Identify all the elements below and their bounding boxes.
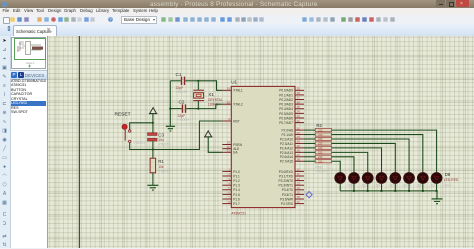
junction bus D8 [435, 190, 437, 192]
svg-text:220: 220 [318, 142, 323, 146]
svg-text:P1.3: P1.3 [233, 184, 240, 188]
svg-text:P2.1/A9: P2.1/A9 [282, 133, 294, 137]
svg-text:220: 220 [318, 146, 323, 150]
pin 37 P0.2/AD2 [279, 96, 304, 102]
wire R2.2 to LED D7 [332, 135, 423, 173]
svg-text:P0.6/AD6: P0.6/AD6 [279, 116, 293, 120]
pin 29 PSEN [222, 141, 242, 147]
node RESET label [115, 112, 131, 118]
svg-text:P0.5/AD5: P0.5/AD5 [279, 112, 293, 116]
pin 13 P3.3/INT1 [279, 181, 304, 187]
pin 21 P2.0/A8 [282, 126, 304, 132]
junction bus D3 [367, 190, 369, 192]
wire P2.1 to R2 [304, 134, 315, 136]
node marker (blue diamond) [306, 191, 312, 197]
pin 25 P2.4/A12 [280, 144, 304, 150]
svg-text:R1: R1 [158, 159, 164, 164]
svg-text:P2.0/A8: P2.0/A8 [282, 129, 294, 133]
svg-text:P0.1/AD1: P0.1/AD1 [279, 93, 293, 97]
pin 22 P2.1/A9 [282, 131, 304, 137]
wire P2.0 to R2 [304, 129, 315, 131]
resistor R2.2 [315, 133, 331, 137]
wire P2.4 to R2 [304, 147, 315, 149]
resistor R1 [150, 150, 170, 186]
resistor R2.6 [315, 151, 331, 155]
wire R2.8 to LED D1 [332, 161, 341, 172]
pin 27 P2.6/A14 [280, 153, 304, 159]
pin 5 P1.4 [222, 186, 240, 192]
svg-text:10k: 10k [158, 165, 164, 169]
pin 17 P3.7/RD [281, 200, 304, 206]
pin 36 P0.3/AD3 [279, 100, 304, 106]
resistor R2.1 [315, 128, 331, 132]
svg-text:P0.4/AD4: P0.4/AD4 [279, 107, 293, 111]
pin 39 P0.0/AD0 [279, 87, 304, 93]
pin 24 P2.3/A11 [280, 140, 304, 146]
pin 3 P1.2 [222, 177, 240, 183]
wire button bottom to RST node [130, 143, 153, 150]
svg-text:<TEXT>: <TEXT> [159, 170, 171, 174]
pin 28 P2.7/A15 [280, 157, 304, 163]
junction bus D2 [353, 190, 355, 192]
svg-text:<TEXT>: <TEXT> [374, 183, 384, 187]
junction X1 top [197, 80, 199, 82]
menu bar [0, 8, 474, 15]
junction X1 bottom [197, 108, 199, 110]
svg-text:220: 220 [318, 133, 323, 137]
wire XTAL2 net [198, 104, 222, 108]
svg-text:<TEXT>: <TEXT> [401, 183, 411, 187]
svg-text:P3.0/RXD: P3.0/RXD [279, 170, 294, 174]
ground under R1 [147, 185, 158, 190]
svg-text:P3.5/T1: P3.5/T1 [282, 193, 293, 197]
svg-text:P0.2/AD2: P0.2/AD2 [279, 98, 293, 102]
svg-text:D8: D8 [445, 172, 451, 177]
pin 11 P3.1/TXD [279, 172, 304, 178]
pin 9 RST [222, 117, 239, 123]
pin 1 P1.0 [222, 168, 240, 174]
pin 7 P1.6 [222, 195, 240, 201]
svg-text:<TEXT>: <TEXT> [388, 183, 398, 187]
LED D6 [404, 173, 426, 191]
svg-text:C1: C1 [176, 72, 182, 77]
wire LED cathode bus [340, 190, 437, 192]
svg-text:220: 220 [318, 128, 323, 132]
svg-text:P1.0: P1.0 [233, 170, 240, 174]
wire P2.7 to R2 [304, 160, 315, 162]
LED D4 [376, 173, 398, 191]
svg-text:<TEXT>: <TEXT> [360, 183, 370, 187]
LED D7 [417, 173, 439, 191]
svg-text:X1: X1 [208, 92, 214, 97]
wire R2.5 to LED D4 [332, 148, 382, 173]
svg-text:220: 220 [318, 159, 323, 163]
svg-text:<TEXT>: <TEXT> [429, 183, 439, 187]
svg-text:U1: U1 [231, 80, 237, 85]
button RESET switch [122, 124, 146, 145]
svg-text:P1.7: P1.7 [233, 202, 240, 206]
LED D8 [431, 173, 453, 191]
svg-text:P2.7/A15: P2.7/A15 [280, 160, 293, 164]
svg-text:RESET: RESET [115, 112, 131, 118]
svg-text:<TEXT>: <TEXT> [346, 183, 356, 187]
junction bus D4 [380, 190, 382, 192]
LED D2 [349, 173, 371, 191]
resistor R2.4 [315, 142, 331, 146]
svg-text:P1.6: P1.6 [233, 197, 240, 201]
svg-text:XTAL1: XTAL1 [233, 89, 243, 93]
resistor R2.7 [315, 155, 331, 159]
pin 12 P3.2/INT0 [279, 177, 304, 183]
svg-text:P0.7/AD7: P0.7/AD7 [279, 121, 293, 125]
svg-text:P2.6/A14: P2.6/A14 [280, 155, 293, 159]
svg-text:P3.6/WR: P3.6/WR [280, 197, 293, 201]
pin 6 P1.5 [222, 191, 240, 197]
junction bus D6 [408, 190, 410, 192]
LED D5 [390, 173, 412, 191]
LED D8 labels [444, 172, 459, 182]
svg-text:P3.2/INT0: P3.2/INT0 [279, 179, 294, 183]
svg-text:C2: C2 [179, 100, 185, 105]
svg-text:AT89C51: AT89C51 [231, 211, 246, 215]
power VCC arrow (EA) [204, 131, 222, 152]
pin 38 P0.1/AD1 [279, 91, 304, 97]
resistor R2.5 [315, 146, 331, 150]
capacitor C1 [170, 72, 198, 94]
pin 26 P2.5/A13 [280, 149, 304, 155]
svg-text:R2: R2 [316, 123, 322, 128]
pin 35 P0.4/AD4 [279, 105, 304, 111]
pin 8 P1.7 [222, 200, 240, 206]
pin 30 ALE [222, 145, 239, 151]
pin 31 EA [222, 149, 238, 155]
pin 14 P3.4/T0 [282, 186, 304, 192]
pin 33 P0.6/AD6 [279, 114, 304, 120]
junction VCC/C3 [152, 122, 154, 124]
resistor R2.8 [315, 159, 331, 163]
toolbar [0, 15, 474, 25]
svg-text:C3: C3 [158, 133, 164, 138]
pin 23 P2.2/A10 [280, 135, 304, 141]
svg-text:P2.4/A12: P2.4/A12 [280, 146, 293, 150]
svg-text:LED-RED: LED-RED [444, 178, 459, 182]
svg-text:P3.3/INT1: P3.3/INT1 [279, 184, 294, 188]
pin 4 P1.3 [222, 181, 240, 187]
pin 18 XTAL2 [222, 100, 243, 106]
pin 34 P0.5/AD5 [279, 110, 304, 116]
crystal X1 [193, 81, 223, 109]
sheet border [79, 36, 81, 248]
ground under LED bus [432, 191, 443, 204]
wire P2.6 to R2 [304, 156, 315, 158]
pin 2 P1.1 [222, 172, 240, 178]
pin 15 P3.5/T1 [282, 191, 304, 197]
capacitor C2 [170, 100, 198, 123]
svg-text:P3.4/T0: P3.4/T0 [282, 188, 293, 192]
svg-text:<TEXT>: <TEXT> [415, 183, 425, 187]
LED D3 [362, 173, 384, 191]
svg-text:P1.1: P1.1 [233, 174, 240, 178]
svg-text:P0.3/AD3: P0.3/AD3 [279, 103, 293, 107]
svg-text:P3.7/RD: P3.7/RD [281, 202, 294, 206]
ground under C1/C2 [166, 126, 175, 131]
wire R2.3 to LED D6 [332, 139, 409, 173]
svg-text:sheet 1: sheet 1 [26, 61, 35, 65]
wire button top to VCC node [130, 123, 153, 130]
svg-text:XTAL2: XTAL2 [233, 103, 243, 107]
svg-text:<TEXT>: <TEXT> [176, 90, 188, 94]
title bar [0, 0, 474, 8]
wire R2.4 to LED D5 [332, 143, 396, 172]
op-amp U1 body (AT89C51) [231, 80, 295, 216]
svg-text:P1.4: P1.4 [233, 188, 240, 192]
svg-text:220: 220 [318, 155, 323, 159]
wire P2.3 to R2 [304, 142, 315, 144]
pin 19 XTAL1 [222, 87, 243, 93]
svg-text:P2.5/A13: P2.5/A13 [280, 151, 293, 155]
svg-text:P0.0/AD0: P0.0/AD0 [279, 89, 293, 93]
svg-text:P2.3/A11: P2.3/A11 [280, 142, 293, 146]
wire XTAL1 net [198, 81, 222, 91]
tab bar [0, 24, 474, 37]
svg-text:220: 220 [318, 151, 323, 155]
svg-text:<TEXT>: <TEXT> [315, 170, 327, 174]
pin 10 P3.0/RXD [279, 168, 304, 174]
pin 32 P0.7/AD7 [279, 119, 304, 125]
resistor pack R2 label [316, 123, 322, 128]
svg-text:P2.2/A10: P2.2/A10 [280, 137, 293, 141]
svg-text:220: 220 [318, 137, 323, 141]
svg-text:P1.5: P1.5 [233, 193, 240, 197]
resistor pack R2 sub-labels [315, 166, 327, 174]
wire RST net [153, 121, 222, 150]
svg-text:P3.1/TXD: P3.1/TXD [279, 174, 294, 178]
wire C1.1-C2.1 vertical [169, 81, 171, 127]
junction bus D5 [394, 190, 396, 192]
svg-text:<TEXT>: <TEXT> [443, 183, 453, 187]
wire R2.6 to LED D3 [332, 152, 368, 172]
object selector [11, 36, 47, 248]
junction C2 left [169, 108, 171, 110]
resistor R2.3 [315, 137, 331, 141]
wire R2.1 to LED D8 [332, 130, 437, 173]
power VCC arrow (reset) [149, 108, 157, 133]
svg-text:10u: 10u [158, 138, 164, 142]
LED D1 [335, 173, 357, 191]
wire R2.7 to LED D2 [332, 157, 354, 173]
left icon strip [0, 36, 11, 248]
svg-text:<TEXT>: <TEXT> [178, 118, 190, 122]
junction bus D7 [422, 190, 424, 192]
svg-text:<TEXT>: <TEXT> [134, 141, 146, 145]
svg-text:RST: RST [233, 119, 239, 123]
wire P2.2 to R2 [304, 138, 315, 140]
capacitor C3 [148, 133, 171, 150]
svg-text:<TEXT>: <TEXT> [159, 143, 171, 147]
pin 16 P3.6/WR [280, 195, 304, 201]
wire P2.5 to R2 [304, 151, 315, 153]
svg-text:P1.2: P1.2 [233, 179, 240, 183]
junction RST node [152, 148, 154, 150]
editor canvas [47, 36, 474, 248]
